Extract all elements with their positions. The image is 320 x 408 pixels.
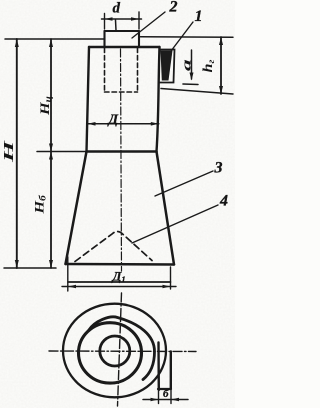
svg-text:б: б [163,388,169,400]
cylinder body [87,47,160,152]
dimension D [87,113,159,128]
dimension d [102,1,142,30]
centerline elevation [115,20,118,31]
svg-text:а: а [180,59,194,71]
dimension b [143,388,188,404]
wire bottom-right extension line [161,89,233,95]
svg-text:Д1: Д1 [112,269,126,285]
inlet box [160,50,175,83]
svg-text:2: 2 [169,0,178,16]
centerline bottom view horizontal [49,350,196,353]
svg-text:d: d [113,1,121,17]
svg-text:4: 4 [219,193,228,210]
svg-text:3: 3 [214,160,223,177]
inlet opening fill [161,51,173,81]
exhaust tube hidden (dashed) [105,48,138,92]
duct inner wall [157,343,160,391]
svg-text:1: 1 [195,8,203,25]
dimension H_c (cylinder height) [38,39,53,152]
exhaust pipe top [105,31,140,47]
duct outer wall [170,352,172,389]
dimension a [180,50,198,85]
cone body [66,152,175,265]
paper texture [0,0,1,1]
callout 4 [132,193,228,244]
junction extension line [37,151,87,153]
callout 3 [155,160,223,197]
wire top-right extension line [141,36,234,38]
svg-text:hг: hг [201,59,217,72]
callout 1 [171,8,203,51]
dimension D1 [62,257,176,291]
svg-text:Hц: Hц [38,96,53,116]
duct bottom [158,388,171,390]
dimension H [1,39,19,268]
wire bottom-left extension line [4,267,56,269]
inner circle [100,336,130,366]
centerline bottom view vertical [118,293,122,406]
hidden cone inside (dashed) [75,231,152,261]
middle circle [79,323,142,383]
svg-text:H: H [1,139,16,163]
wire top extension line [5,38,104,40]
callout 2 [132,0,178,38]
dimension H_b (cone height) [33,152,53,269]
svg-text:Hб: Hб [33,194,48,214]
svg-text:Д: Д [107,113,119,128]
scroll spiral wall [89,317,155,380]
outer circle [63,304,166,398]
dimension h_g [201,37,223,94]
